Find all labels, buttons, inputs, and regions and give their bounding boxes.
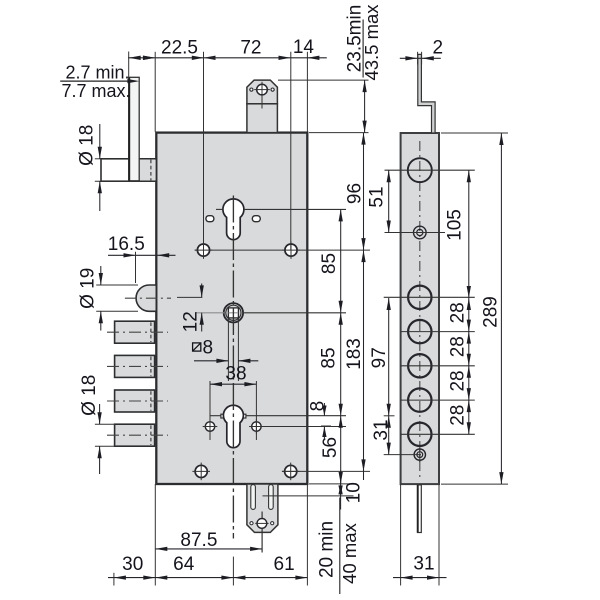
plate pin xyxy=(417,485,421,533)
dimension 72 xyxy=(203,52,205,250)
dimension 61 xyxy=(295,575,307,579)
dimension 31 xyxy=(387,416,391,428)
dimension 30 xyxy=(108,577,307,579)
svg-text:20 min: 20 min xyxy=(316,521,337,578)
top screw line xyxy=(195,249,370,251)
deviator bolt hidden edge xyxy=(150,160,152,181)
plate hole top axis xyxy=(385,169,475,171)
body face extension below xyxy=(154,484,156,586)
svg-text:16.5: 16.5 xyxy=(108,234,145,255)
dimension 30 tick xyxy=(113,573,115,586)
cam level tick xyxy=(384,415,395,417)
svg-text:72: 72 xyxy=(240,37,261,58)
fork screw hole xyxy=(257,519,267,529)
svg-text:183: 183 xyxy=(344,338,365,370)
dimension 64 xyxy=(155,575,167,579)
svg-text:87.5: 87.5 xyxy=(180,530,217,551)
fixing screw extension left xyxy=(209,381,211,440)
dimension 97 xyxy=(387,298,391,310)
svg-text:2.7 min.: 2.7 min. xyxy=(65,62,129,82)
plate hole 3 axis xyxy=(401,331,475,333)
dimension chain 105 28 line xyxy=(468,170,470,434)
bottom screw left xyxy=(195,465,207,477)
dimension 51 xyxy=(388,170,390,232)
svg-text:28: 28 xyxy=(448,302,469,323)
lock bolt 3 centerline xyxy=(107,400,168,402)
dimension 22.5 xyxy=(154,52,156,132)
deviator rod xyxy=(129,77,139,181)
lock bolt 2 centerline xyxy=(107,365,168,367)
svg-text:105: 105 xyxy=(445,209,466,241)
svg-text:14: 14 xyxy=(293,37,315,58)
main centerline xyxy=(232,196,234,539)
latch bolt xyxy=(136,285,156,311)
top screw left xyxy=(197,244,209,256)
svg-text:Ø 18: Ø 18 xyxy=(76,125,97,166)
lock bolt 1 xyxy=(115,321,155,343)
plate hole 4 xyxy=(408,354,431,377)
dimension 56 xyxy=(339,416,343,428)
cylinder fixing screw right xyxy=(252,422,261,431)
svg-text:2: 2 xyxy=(433,37,444,58)
svg-text:51: 51 xyxy=(367,186,388,207)
bottom extension fork plate xyxy=(247,484,278,532)
dimension square 8 xyxy=(193,343,201,351)
top plate small hole right xyxy=(271,88,274,91)
fork small hole left xyxy=(250,522,253,525)
plate hole 4 axis xyxy=(401,365,475,367)
svg-text:8: 8 xyxy=(308,401,329,412)
euro cylinder bottom xyxy=(223,405,243,447)
dimension 8 cam xyxy=(323,403,325,416)
knob axis line xyxy=(196,312,224,314)
svg-text:31: 31 xyxy=(371,419,392,440)
svg-text:97: 97 xyxy=(369,347,390,368)
dimension chain 96 183 line xyxy=(363,133,365,480)
plate hole 5 axis xyxy=(401,399,475,401)
plate hole 6 xyxy=(408,423,431,446)
svg-text:38: 38 xyxy=(225,364,246,385)
svg-text:64: 64 xyxy=(173,554,195,575)
svg-text:85: 85 xyxy=(319,253,340,274)
plate hole top xyxy=(408,158,432,182)
body right extension below xyxy=(306,484,308,585)
plate screw top xyxy=(414,226,427,239)
fixing screw extension right xyxy=(255,381,257,440)
plate screw top axis xyxy=(385,232,446,234)
lock bolt 2 xyxy=(115,355,155,377)
cylinder axis line xyxy=(210,415,221,417)
svg-text:96: 96 xyxy=(344,183,365,204)
plate screw bottom xyxy=(414,449,425,460)
svg-text:Ø 18: Ø 18 xyxy=(79,375,100,416)
svg-text:40 max: 40 max xyxy=(339,522,360,583)
dimension 85 upper xyxy=(339,209,343,221)
top extension plate xyxy=(247,80,278,104)
fork slot left xyxy=(251,485,256,510)
plate hole 2 axis xyxy=(384,296,475,298)
plate centerline xyxy=(419,141,421,478)
dimension 183 xyxy=(361,250,365,262)
fixing screw line xyxy=(263,426,346,428)
euro cylinder top keyhole xyxy=(223,199,244,240)
counter plate xyxy=(401,133,439,484)
dimension rod offset 2.7-7.7 xyxy=(128,57,155,59)
dimension 97 31 line xyxy=(388,298,390,455)
top extension stem xyxy=(247,104,278,133)
svg-text:61: 61 xyxy=(274,554,295,575)
plate hole 6 axis xyxy=(401,433,475,435)
fork centerline xyxy=(261,512,263,553)
dimension 289 xyxy=(441,132,508,134)
centerline extension below xyxy=(232,557,234,586)
dimension 85 lower xyxy=(339,313,343,325)
dimension 31 plate width xyxy=(400,485,402,586)
svg-text:30: 30 xyxy=(122,554,143,575)
lock bolt 4 centerline xyxy=(107,434,168,436)
svg-text:289: 289 xyxy=(480,296,501,328)
svg-text:12: 12 xyxy=(181,311,202,332)
top screw right xyxy=(285,244,297,256)
lock bolt 3 xyxy=(115,390,155,412)
svg-text:22.5: 22.5 xyxy=(161,37,198,58)
dimension 10 xyxy=(263,495,354,497)
fixing hole right xyxy=(252,216,260,222)
svg-text:Ø 19: Ø 19 xyxy=(78,268,99,309)
svg-text:28: 28 xyxy=(448,336,469,357)
fixing hole left xyxy=(206,216,214,222)
knob square extension lines xyxy=(227,318,229,381)
plate hole 5 xyxy=(408,388,431,411)
knob follower xyxy=(224,303,243,322)
bent strip xyxy=(418,54,435,133)
fork slot right xyxy=(269,485,274,510)
plate screw bottom axis xyxy=(384,454,421,456)
cylinder cam xyxy=(221,414,246,418)
svg-text:8: 8 xyxy=(203,338,214,359)
svg-text:85: 85 xyxy=(319,347,340,368)
dimension 14 xyxy=(290,52,292,250)
top plate small hole left xyxy=(250,88,253,91)
svg-text:43.5 max: 43.5 max xyxy=(361,4,382,81)
svg-text:10: 10 xyxy=(344,482,365,503)
latch centerline xyxy=(125,297,171,299)
lock bolt 4 xyxy=(115,424,155,446)
keyhole axis line xyxy=(216,208,223,210)
lock bolt 1 centerline xyxy=(107,331,168,333)
svg-text:28: 28 xyxy=(448,370,469,391)
plate hole 3 xyxy=(408,320,431,343)
dimension chain 85 85 56 line xyxy=(340,209,342,484)
svg-text:31: 31 xyxy=(413,553,434,574)
bottom screw line xyxy=(282,470,370,472)
dimension 96 xyxy=(361,133,365,145)
dimensions 28 xyxy=(467,298,471,310)
lock body case xyxy=(156,133,307,484)
fork small hole right xyxy=(271,522,274,525)
svg-text:28: 28 xyxy=(448,405,469,426)
bottom screw right xyxy=(285,465,297,477)
plate hole 2 xyxy=(408,286,431,309)
deviator bolt top xyxy=(101,159,156,181)
svg-text:56: 56 xyxy=(320,437,341,458)
svg-text:7.7 max.: 7.7 max. xyxy=(61,81,130,101)
top plate screw hole xyxy=(257,84,268,95)
cylinder fixing screw left xyxy=(205,422,214,431)
dimension 105 xyxy=(467,170,471,182)
